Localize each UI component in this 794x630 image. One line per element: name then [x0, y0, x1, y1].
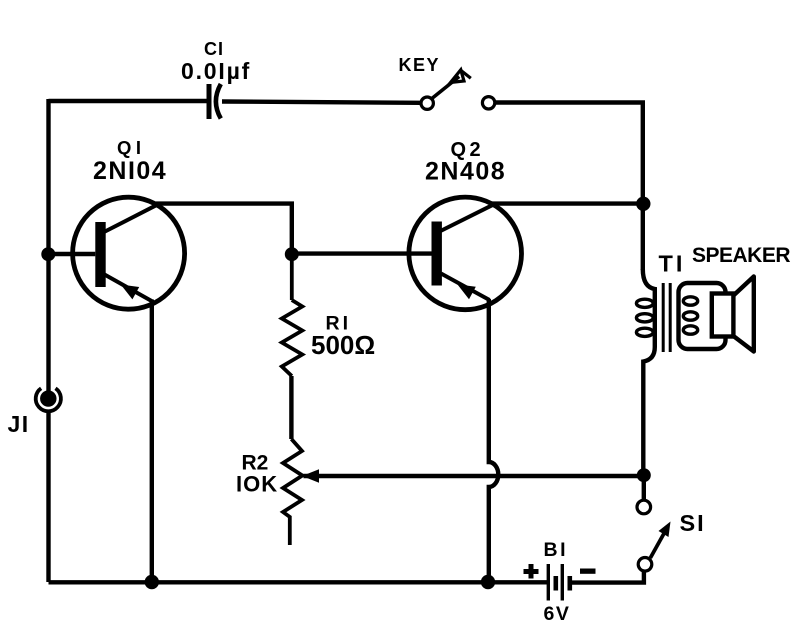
svg-text:0.0Iµf: 0.0Iµf: [181, 58, 251, 84]
node Q2 emitter bottom junction dot: [481, 575, 495, 589]
speaker secondary bumps: [683, 297, 697, 334]
svg-text:JI: JI: [8, 411, 30, 437]
transistor Q2 emitter arrow: [457, 284, 475, 299]
wire top rail left (cap to left corner): [49, 99, 208, 103]
transformer T1 core: [663, 283, 670, 352]
potentiometer R2: [283, 439, 302, 545]
node Q1 emitter bottom junction dot: [145, 575, 159, 589]
transistor Q1 emitter arrow: [121, 285, 139, 300]
node Q2 collector junction dot: [636, 197, 650, 211]
switch KEY flag: [451, 70, 471, 83]
switch KEY left terminal: [421, 97, 433, 109]
svg-text:2NI04: 2NI04: [93, 157, 167, 185]
speaker magnet: [712, 294, 734, 337]
wire R2 wiper: [304, 474, 645, 478]
switch KEY right terminal: [482, 97, 494, 109]
svg-text:QI: QI: [117, 137, 146, 158]
node R1/Q2-base junction dot: [285, 247, 299, 261]
speaker horn: [733, 277, 753, 352]
transistor Q1 circle: [73, 197, 185, 309]
wire R1 to R2: [289, 376, 293, 439]
transistor Q2 base bar: [432, 222, 442, 286]
transformer T1 primary bumps: [636, 299, 653, 336]
connector J1 dot: [40, 390, 56, 406]
transistor Q2 collector lead: [441, 204, 496, 231]
wire battery to S1: [570, 572, 644, 583]
switch S1 lower terminal: [638, 558, 652, 572]
transistor Q2 circle: [409, 197, 522, 310]
switch KEY lever: [432, 77, 460, 99]
switch S1 upper terminal: [637, 500, 651, 514]
svg-text:2N408: 2N408: [425, 158, 506, 186]
transistor Q1 collector lead: [104, 204, 159, 232]
wire junction to S1 upper: [642, 475, 646, 501]
connector J1 ring: [36, 388, 61, 411]
svg-text:6V: 6V: [544, 603, 571, 625]
R2 wiper arrowhead: [302, 469, 319, 482]
battery B1 plates: [548, 564, 570, 601]
svg-text:BI: BI: [544, 539, 569, 561]
svg-text:KEY: KEY: [399, 55, 441, 75]
switch S1 lever: [650, 533, 664, 559]
battery minus sign: [580, 569, 596, 574]
switch S1 arrowhead: [659, 522, 671, 538]
capacitor C1: [209, 84, 221, 119]
svg-text:CI: CI: [204, 39, 224, 59]
wire Q1 to Q2 base: [292, 251, 432, 255]
wire Q1 base: [49, 252, 96, 256]
svg-text:TI: TI: [659, 251, 686, 277]
wire Q1 collector horizontal: [156, 201, 294, 205]
resistor R1: [282, 254, 303, 376]
node Q1 base junction dot: [41, 247, 55, 261]
speaker frame: [679, 283, 726, 349]
wire KEY to right rail corner: [495, 103, 643, 271]
wire left rail: [46, 99, 50, 399]
node wiper/T1/S1 junction dot: [637, 468, 651, 482]
svg-text:IOK: IOK: [236, 472, 278, 497]
battery plus sign: [524, 564, 539, 579]
svg-text:SI: SI: [680, 510, 706, 536]
wire bottom rail: [49, 580, 549, 584]
transistor Q1 base bar: [95, 222, 105, 287]
transistor Q2 emitter lead: [441, 274, 490, 301]
svg-text:SPEAKER: SPEAKER: [692, 244, 790, 267]
wire Q2 collector horizontal: [492, 201, 643, 205]
wire Q2 emitter down with hop over wiper: [489, 299, 499, 582]
svg-text:500Ω: 500Ω: [311, 330, 375, 360]
wire down to R1 junction: [290, 204, 294, 256]
transistor Q1 emitter lead: [105, 275, 153, 302]
wire cap to KEY: [222, 102, 421, 103]
wire Q1 emitter down: [150, 300, 154, 583]
transformer T1 primary curve and winding: [643, 269, 655, 470]
